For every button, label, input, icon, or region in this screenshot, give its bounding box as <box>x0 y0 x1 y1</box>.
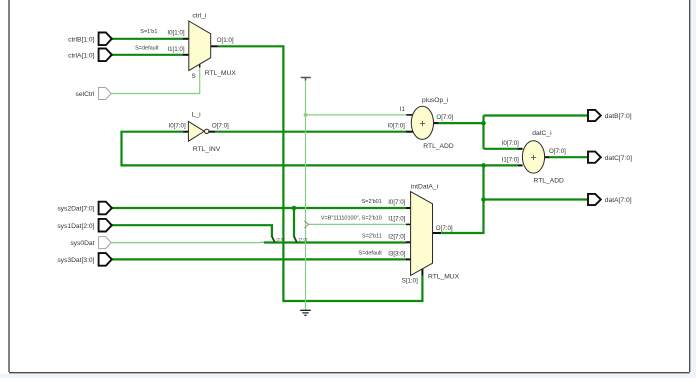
wire const to intDatA I1 <box>309 223 407 225</box>
svg-text:datB[7:0]: datB[7:0] <box>605 113 632 120</box>
stub datC I0 <box>518 148 523 150</box>
inverter L_i body <box>188 121 204 141</box>
svg-text:I3[3:0]: I3[3:0] <box>388 250 405 257</box>
port sys2Dat[7:0] <box>99 202 112 215</box>
stub ctrl_i I0 <box>183 38 189 40</box>
svg-text:sys1Dat[2:0]: sys1Dat[2:0] <box>57 223 94 230</box>
port sys1Dat[2:0] <box>99 219 112 232</box>
port ctrlA[1:0] <box>99 49 112 62</box>
svg-text:O[7:0]: O[7:0] <box>549 148 566 155</box>
svg-text:O[7:0]: O[7:0] <box>436 114 453 121</box>
const T bar <box>301 78 311 81</box>
svg-text:datC[7:0]: datC[7:0] <box>605 155 632 162</box>
stub ctrl_i S <box>199 64 201 67</box>
stub intDatA O <box>433 232 442 234</box>
svg-text:I1[7:0]: I1[7:0] <box>388 215 405 222</box>
canvas frame <box>691 0 696 378</box>
port datA[7:0] <box>588 194 601 205</box>
wire ctrlA to ctrl_i I1 <box>112 54 183 56</box>
svg-text:L_i: L_i <box>192 112 201 119</box>
svg-text:I0[7:0]: I0[7:0] <box>502 140 519 147</box>
svg-text:selCtrl: selCtrl <box>76 91 95 98</box>
svg-text:plusOp_i: plusOp_i <box>422 97 449 104</box>
svg-text:[7:0]: [7:0] <box>299 236 307 241</box>
mux ctrl_i <box>189 21 211 71</box>
wire concat bus to intDatA I2 <box>264 241 406 243</box>
stub intDatA I1 <box>406 223 411 225</box>
svg-text:O[7:0]: O[7:0] <box>436 225 453 232</box>
inverter L_i bubble <box>205 129 209 133</box>
stub inverter I0 <box>183 131 188 133</box>
svg-text:I1[1:0]: I1[1:0] <box>167 46 184 53</box>
ground <box>300 310 311 315</box>
svg-text:S[1:0]: S[1:0] <box>402 278 418 285</box>
stub intDatA I3 <box>406 258 411 260</box>
svg-text:ctrlB[1:0]: ctrlB[1:0] <box>68 36 95 43</box>
svg-text:I0[7:0]: I0[7:0] <box>388 123 405 130</box>
svg-text:datC_i: datC_i <box>532 130 552 137</box>
junction const plusOp I1 <box>304 113 308 117</box>
svg-text:ctrlA[1:0]: ctrlA[1:0] <box>68 52 95 59</box>
svg-text:I2[7:0]: I2[7:0] <box>388 233 405 240</box>
svg-text:S=default: S=default <box>358 250 382 256</box>
mux intDatA_i <box>411 192 433 276</box>
ripper diagonal sys1Dat <box>272 237 275 243</box>
wire sys1Dat jog <box>112 225 272 237</box>
junction intDatA out / datC I1 <box>481 163 486 168</box>
svg-text:RTL_MUX: RTL_MUX <box>205 70 237 77</box>
junction plusOp out <box>481 121 486 126</box>
wire plusOp O to datB and datC I0 <box>438 116 588 149</box>
port sys3Dat[3:0] <box>99 253 112 266</box>
svg-text:RTL_ADD: RTL_ADD <box>423 143 454 150</box>
svg-text:RTL_INV: RTL_INV <box>193 146 221 153</box>
port datC[7:0] <box>588 152 601 163</box>
adder datC_i <box>522 141 544 173</box>
stub plusOp I0 <box>406 131 413 133</box>
svg-text:sys0Dat: sys0Dat <box>70 240 94 247</box>
stub plusOp O <box>434 122 439 124</box>
wire ctrlB to ctrl_i I0 <box>112 38 183 40</box>
port selCtrl <box>99 88 112 100</box>
stub inverter O <box>209 131 215 133</box>
wire ctrl_i O[1:0] to intDatA_i S[1:0] <box>218 46 423 301</box>
svg-text:datA[7:0]: datA[7:0] <box>605 197 632 204</box>
port sys0Dat <box>99 237 112 249</box>
wire const to plusOp I1 <box>306 114 407 116</box>
svg-text:S=2'b01: S=2'b01 <box>362 199 382 205</box>
wire selCtrl to ctrl_i S <box>111 67 200 94</box>
svg-text:O[1:0]: O[1:0] <box>217 37 234 44</box>
svg-text:I0[7:0]: I0[7:0] <box>168 123 185 130</box>
stub plusOp I1 <box>406 114 413 116</box>
svg-text:S=2'b11: S=2'b11 <box>362 233 382 239</box>
svg-text:I1[7:0]: I1[7:0] <box>502 156 519 163</box>
port ctrlB[1:0] <box>99 33 112 46</box>
junction datA <box>481 197 486 202</box>
svg-text:V=B"11110100", S=2'b10: V=B"11110100", S=2'b10 <box>321 215 382 221</box>
svg-text:S=default: S=default <box>135 45 159 51</box>
stub intDatA I0 <box>406 207 411 209</box>
wire intDatA out loop to inverter input <box>122 132 484 166</box>
stub intDatA I2 <box>406 241 411 243</box>
svg-text:RTL_MUX: RTL_MUX <box>428 274 460 281</box>
svg-text:intDatA_i: intDatA_i <box>411 184 439 191</box>
svg-text:sys2Dat[7:0]: sys2Dat[7:0] <box>57 206 94 213</box>
const chevron intDatA I1 <box>304 221 308 228</box>
wire datC I1 <box>484 164 518 166</box>
svg-text:S=1'b1: S=1'b1 <box>140 29 157 35</box>
ripper diagonal sys2Dat <box>294 237 297 243</box>
svg-text:[2:0]: [2:0] <box>277 236 285 241</box>
adder plusOp_i <box>411 106 433 139</box>
svg-text:RTL_ADD: RTL_ADD <box>534 178 565 185</box>
svg-text:S: S <box>192 73 196 80</box>
ripper tick sys0Dat <box>261 241 264 244</box>
svg-text:O[7:0]: O[7:0] <box>212 123 229 130</box>
wire sys0Dat <box>110 242 261 244</box>
wire const0 vertical <box>305 79 307 310</box>
stub intDatA S <box>421 269 423 276</box>
stub datC O <box>545 156 550 158</box>
stub datC I1 <box>518 164 523 166</box>
wire sys3Dat to intDatA I3 <box>112 258 407 260</box>
svg-text:ctrl_i: ctrl_i <box>192 12 207 19</box>
svg-text:I0[1:0]: I0[1:0] <box>167 30 184 37</box>
wire intDatA out vertical, datA <box>441 165 588 233</box>
wire sys2Dat to intDatA I0 <box>112 207 407 209</box>
stub ctrl_i O <box>211 45 218 47</box>
wire datC O to datC port <box>549 156 588 158</box>
svg-text:I1: I1 <box>400 106 406 113</box>
svg-text:I0[7:0]: I0[7:0] <box>388 199 405 206</box>
wire sys2Dat tap vertical <box>293 208 295 237</box>
port datB[7:0] <box>588 110 601 121</box>
stub ctrl_i I1 <box>183 54 189 56</box>
junction sys2Dat tap <box>292 206 297 211</box>
wire inverter output to plusOp I0 <box>215 131 407 133</box>
svg-text:sys3Dat[3:0]: sys3Dat[3:0] <box>57 257 94 264</box>
